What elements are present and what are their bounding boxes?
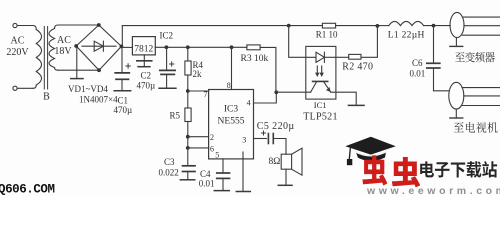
svg-text:C3: C3 (164, 157, 175, 167)
resistor R1 10 (289, 23, 378, 28)
svg-text:IC1: IC1 (314, 100, 327, 110)
label pin 8 (227, 81, 231, 90)
speaker 8ohm (281, 148, 302, 175)
svg-text:7812: 7812 (134, 45, 153, 55)
svg-text:L1 22µH: L1 22µH (388, 31, 425, 41)
polarity + C5 (262, 131, 266, 135)
svg-text:0.01: 0.01 (410, 69, 426, 79)
svg-text:C1: C1 (118, 96, 129, 106)
regulator IC2 7812 box (132, 37, 155, 55)
wire (121, 26, 123, 45)
label R3 10k (241, 54, 269, 64)
ground pin1 (236, 191, 250, 193)
optocoupler IC1 box (306, 46, 336, 99)
svg-text:R1 10: R1 10 (316, 30, 338, 40)
wire collector (276, 91, 310, 93)
label IC1 (314, 100, 327, 110)
svg-text:NE555: NE555 (218, 117, 245, 127)
svg-text:TLP521: TLP521 (303, 112, 338, 123)
label pin 7 (204, 90, 208, 99)
capacitor C output filter (160, 47, 175, 88)
label pin 4 (247, 98, 251, 107)
inductor L1 22uH (389, 21, 424, 25)
connector J4 shield gnd (450, 109, 463, 118)
logo chongchong red characters (362, 155, 420, 187)
polarity + C1 (126, 64, 130, 68)
svg-text:0.022: 0.022 (159, 168, 179, 178)
node pin7 junction (186, 89, 190, 93)
label 8ohm (269, 157, 281, 167)
node R2/R1 junction (376, 24, 380, 28)
node bridge top (97, 23, 101, 27)
svg-text:1N4007×4: 1N4007×4 (79, 95, 118, 105)
svg-text:IC3: IC3 (224, 105, 239, 115)
label 0.01 C6 (410, 69, 426, 79)
label pin 2 (210, 133, 214, 142)
svg-text:R5: R5 (170, 111, 181, 121)
wire (187, 137, 189, 166)
transformer B secondary winding (49, 25, 58, 70)
svg-text:B: B (43, 92, 50, 103)
ground (71, 78, 83, 80)
bridge rectifier VD1~VD4 diamond (76, 25, 121, 70)
capacitor C4 0.01 (217, 173, 230, 191)
node bridge bottom (97, 68, 101, 72)
watermark url (366, 185, 500, 197)
wire pin5 to C4 (222, 159, 224, 173)
resistor R4 2k (185, 47, 191, 91)
ground (159, 87, 176, 89)
resistor R2 470 (336, 28, 378, 60)
label R1 10 (316, 30, 338, 40)
ground opto (348, 104, 364, 106)
label TLP521 (303, 112, 338, 123)
watermark site name (420, 161, 497, 177)
svg-text:8: 8 (227, 81, 231, 90)
wire pin1 to ground (242, 152, 244, 192)
connector J4 coax (449, 82, 500, 109)
wire bridge-left to ground (76, 48, 78, 79)
wire pin8 (231, 47, 233, 89)
wire (17, 25, 33, 27)
svg-text:220V: 220V (6, 47, 29, 58)
node pin6 junction (186, 146, 190, 150)
svg-text:2k: 2k (193, 69, 203, 79)
capacitor C1 470u (115, 48, 129, 91)
LED inside opto (316, 52, 336, 62)
label IC3 (224, 105, 239, 115)
label C6 (412, 58, 423, 68)
node (186, 45, 190, 49)
label IC2 (160, 31, 174, 41)
label NE555 (218, 117, 245, 127)
label pin 5 (215, 151, 219, 160)
svg-text:3: 3 (242, 136, 246, 145)
svg-text:470µ: 470µ (137, 81, 156, 91)
label to-inverter (455, 52, 495, 63)
ground C4 (214, 190, 229, 192)
svg-text:8Ω: 8Ω (269, 157, 281, 167)
terminal J2 AC-N (13, 86, 17, 90)
svg-text:AC: AC (57, 35, 71, 46)
connector J3 coax (450, 12, 500, 37)
label AC 220V (6, 36, 29, 59)
node C6 tap (432, 24, 436, 28)
label C5 220u (257, 121, 295, 132)
svg-text:0.01: 0.01 (199, 179, 215, 189)
svg-text:AC: AC (11, 36, 25, 47)
ground C3 (180, 179, 194, 181)
svg-text:18V: 18V (54, 46, 72, 57)
label 1N4007x4 (79, 95, 118, 105)
svg-text:470µ: 470µ (114, 105, 133, 115)
transformer core (44, 27, 47, 90)
connector J3 shield gnd (450, 38, 463, 47)
wire (17, 87, 33, 89)
label 7812 (134, 45, 153, 55)
wire (121, 46, 132, 48)
label R4 (193, 60, 204, 70)
node R1 left (287, 24, 291, 28)
node pin4 (274, 90, 278, 94)
label R2 470 (342, 62, 373, 73)
wire pin6 (188, 147, 209, 149)
wire pin4 (254, 92, 277, 103)
wire pin2 (188, 136, 209, 138)
ground speaker (278, 184, 292, 186)
wire C5 to speaker (273, 139, 286, 155)
capacitor C2 470u (137, 55, 152, 67)
svg-text:4: 4 (247, 98, 251, 107)
capacitor C5 220u (268, 134, 273, 144)
label 470u C2 (137, 81, 156, 91)
ground C2 (138, 66, 150, 68)
svg-text:C2: C2 (141, 71, 152, 81)
resistor R5 (185, 91, 191, 137)
terminal J1 AC-L (13, 23, 17, 27)
svg-text:2: 2 (210, 133, 214, 142)
label R5 (170, 111, 181, 121)
ground C1 (114, 90, 131, 92)
label C1 (118, 96, 129, 106)
wire (424, 25, 451, 27)
label C2 (141, 71, 152, 81)
label pin 3 (242, 136, 246, 145)
wire emitter to ground (331, 92, 357, 105)
diode inside bridge (82, 41, 116, 51)
wire (58, 24, 99, 26)
polarity + (170, 62, 174, 66)
label AC 18V (54, 35, 72, 57)
node (230, 45, 234, 49)
svg-text:C6: C6 (412, 58, 423, 68)
svg-text:R2 470: R2 470 (342, 62, 373, 73)
wire top rail (122, 25, 288, 27)
wire speaker gnd (285, 169, 287, 185)
phototransistor (311, 81, 331, 92)
wire LED feed (289, 26, 316, 58)
svg-text:5: 5 (215, 151, 219, 160)
svg-text:6: 6 (210, 144, 214, 153)
node pin2 junction (186, 135, 190, 139)
node (165, 45, 169, 49)
label 2k (193, 69, 203, 79)
watermark Q606.COM (0, 183, 55, 197)
label VD1~VD4 (68, 84, 108, 94)
label C4 (200, 169, 211, 179)
label pin 6 (210, 144, 214, 153)
label B (43, 92, 50, 103)
svg-text:VD1~VD4: VD1~VD4 (68, 84, 108, 94)
capacitor C3 0.022 (183, 166, 196, 180)
label 0.022 (159, 168, 179, 178)
wire (377, 25, 388, 27)
wire (58, 69, 99, 71)
resistor R3 10k (247, 45, 276, 92)
svg-text:Q606.COM: Q606.COM (0, 183, 55, 196)
svg-text:IC2: IC2 (160, 31, 174, 41)
svg-text:C5 220µ: C5 220µ (257, 121, 295, 132)
label L1 22uH (388, 31, 425, 41)
svg-text:www.eeworm.com: www.eeworm.com (366, 185, 500, 196)
label 470u C1 (114, 105, 133, 115)
light arrows (315, 66, 324, 77)
node bridge right (120, 45, 124, 49)
wire pin3 (254, 138, 267, 140)
capacitor C6 0.01 (427, 26, 449, 91)
label C3 (164, 157, 175, 167)
wire pin7 (188, 90, 209, 92)
timer IC3 NE555 box (209, 90, 254, 159)
svg-text:R3 10k: R3 10k (241, 54, 269, 64)
svg-text:7: 7 (204, 90, 208, 99)
label to-TV (454, 122, 498, 133)
svg-text:C4: C4 (200, 169, 211, 179)
label 0.01 C4 (199, 179, 215, 189)
logo graduation cap (345, 137, 396, 165)
wire 12V rail (155, 46, 247, 48)
node bridge left (74, 44, 78, 48)
transformer B primary winding (33, 26, 42, 89)
